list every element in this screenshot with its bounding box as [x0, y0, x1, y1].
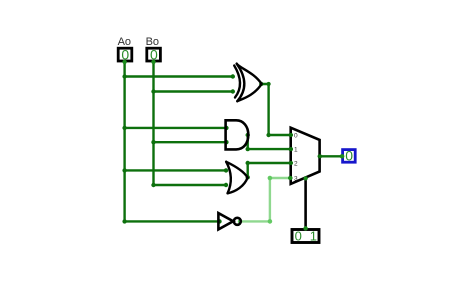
multiplexer U5	[291, 128, 320, 184]
wire AND output to MUX input 1	[248, 135, 291, 149]
svg-text:0: 0	[345, 148, 353, 164]
wire XOR output to MUX input 0	[261, 84, 290, 135]
svg-text:0: 0	[295, 229, 302, 244]
wire Ao to XOR top input	[125, 75, 233, 77]
dots XOR output run	[259, 82, 293, 137]
select input pin S (2-bit, value 01)	[292, 229, 319, 244]
svg-text:1: 1	[310, 229, 317, 244]
junction dots on Ao trunk	[122, 60, 126, 224]
wire Ao to NOT input	[125, 220, 220, 222]
port dots OR inputs	[224, 168, 228, 187]
port dot NOT input	[217, 219, 221, 223]
svg-text:0: 0	[294, 133, 298, 140]
junction dots on Bo trunk	[151, 60, 155, 188]
svg-text:1: 1	[294, 147, 298, 154]
NOT gate U4	[218, 213, 240, 229]
port dot Ao pin	[122, 60, 126, 64]
port dots AND inputs	[224, 126, 228, 145]
wire NOT output to MUX input 3 (value 1, light green)	[241, 178, 289, 221]
port dot output pin O	[340, 154, 344, 158]
wire OR output to MUX input 2	[248, 163, 291, 177]
wire Bo to OR bottom input	[154, 184, 227, 186]
OR gate U3	[226, 162, 247, 194]
output pin O	[343, 148, 356, 164]
wire MUX select (2-bit, black)	[304, 179, 307, 229]
dots AND output run	[246, 133, 293, 152]
wire Bo vertical trunk	[152, 62, 154, 186]
port dot mux select	[304, 176, 308, 180]
AND gate U2	[225, 119, 249, 151]
wire Ao vertical trunk	[123, 62, 125, 222]
svg-text:Ao: Ao	[118, 36, 131, 48]
port dot Bo pin	[151, 60, 155, 64]
dots MUX output run	[318, 154, 345, 158]
dots NOT output run (light)	[238, 176, 272, 224]
svg-text:Bo: Bo	[146, 36, 159, 48]
dot select pin port	[303, 226, 307, 230]
dot MUX select port	[303, 176, 307, 180]
dots OR output run	[246, 161, 293, 180]
svg-text:3: 3	[294, 175, 298, 182]
dot MUX input 3	[288, 176, 292, 180]
svg-text:2: 2	[294, 161, 298, 168]
port dot mux input 3	[288, 176, 292, 180]
wire MUX output to output pin	[320, 155, 342, 157]
input pin Bo	[147, 46, 161, 62]
port dot select pin top	[303, 226, 307, 230]
input pin Ao	[118, 46, 132, 62]
wire Bo to AND bottom input	[154, 141, 227, 143]
wire Ao to OR top input	[125, 169, 226, 171]
wire Ao to AND top input	[125, 127, 227, 129]
wire Bo to XOR bottom input	[154, 90, 233, 92]
port dot mux output	[318, 154, 322, 158]
port dots XOR inputs	[231, 74, 235, 93]
port dots mux left edge	[289, 133, 293, 165]
XOR gate U1	[234, 64, 261, 101]
